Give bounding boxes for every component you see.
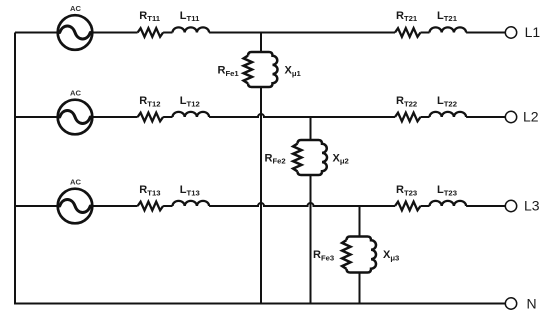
svg-text:N: N xyxy=(527,295,537,311)
svg-text:AC: AC xyxy=(70,88,81,97)
svg-text:L2: L2 xyxy=(523,109,539,125)
svg-text:AC: AC xyxy=(70,4,81,13)
svg-text:L1: L1 xyxy=(525,24,541,40)
svg-text:AC: AC xyxy=(70,177,81,186)
svg-text:L3: L3 xyxy=(524,198,540,214)
